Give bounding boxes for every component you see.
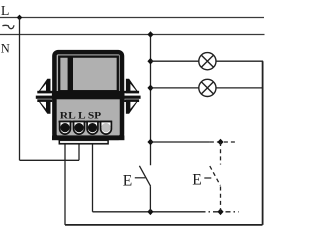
terminal openings top line [59,121,112,123]
right claw screw bar [124,96,141,99]
node N branch [147,31,153,38]
svg-text:E: E [192,172,201,189]
wire dash-dot extension bottom [201,211,239,213]
wire lamp row2 left [151,87,199,89]
wire switch row horizontal [151,141,210,143]
node lamp row1 [147,58,153,65]
wire from terminal SP down [92,143,94,212]
left claw top band [37,91,52,94]
wire pushbutton bottom line [93,211,201,213]
lamp 2 [199,79,216,96]
left claw bottom [37,99,50,113]
label E1 tick [135,177,146,179]
device outer case [54,52,122,138]
wire N line [0,34,265,36]
svg-text:E: E [123,172,132,189]
wire horizontal to L terminal [20,159,80,161]
svg-text:N: N [1,42,10,56]
terminal openings [60,122,112,135]
wire from terminal RL down [64,143,66,225]
wire lamp row1 right [216,60,263,62]
node switch2 bottom [217,209,223,216]
switch E2 dashed vertical lower [220,187,222,212]
device bottom bar [52,135,124,140]
switch E1 blade [139,166,150,186]
node switch2 top [217,139,223,146]
wire N branch vertical [150,35,152,166]
inner panel [59,57,118,92]
wire from L junction down [19,18,21,161]
dimmer device U1 body [36,52,141,144]
wire up into terminal L [78,143,80,160]
left claw bottom band [37,99,52,102]
wire L line [0,17,264,19]
bottom plate [59,140,108,144]
svg-text:RL L SP: RL L SP [60,111,102,121]
right claw top band [124,91,139,94]
left claw screw bar [36,96,53,99]
node switch1 bottom [147,209,153,216]
right claw top [126,79,139,94]
node L junction [17,15,23,21]
label E2 tick [204,177,211,179]
wire bottom lamp return [65,224,263,226]
node lamp row2 [147,85,153,92]
left claw top [37,79,50,94]
wire right vertical lamp feed [262,61,264,225]
inner panel divider stripe [68,56,73,92]
AC source symbol ~ [2,25,14,28]
lamp 1 [199,53,216,70]
wire lamp row2 right [216,87,263,89]
wire lamp row1 left [151,60,199,62]
switch E2 dashed vertical upper [220,142,222,165]
wire dash extension to switch2 top [210,141,238,143]
right claw bottom band [124,99,139,102]
middle black band [52,91,125,99]
switch E2 blade dashed [210,166,221,186]
switch E1 lower wire [149,186,151,212]
node switch1 top [147,139,153,146]
right claw bottom [126,99,139,113]
